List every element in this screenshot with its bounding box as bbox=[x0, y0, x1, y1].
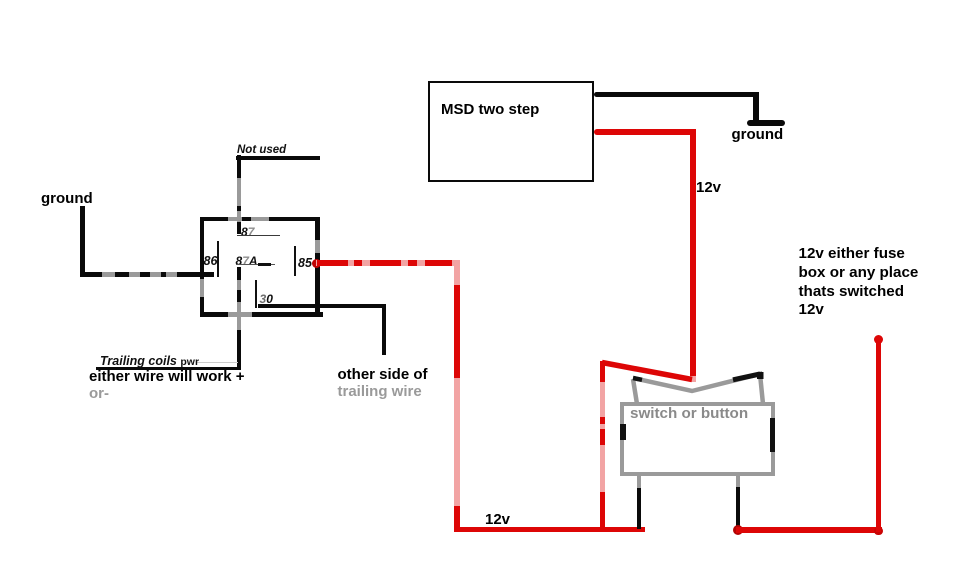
left red vertical dash a bbox=[600, 417, 606, 424]
87A vertical watermark patch 2 bbox=[237, 302, 241, 330]
switch left leg (black) bbox=[637, 488, 642, 529]
left red vertical pink 2 bbox=[600, 424, 606, 429]
relay top edge watermark patch bbox=[228, 217, 242, 221]
relay K1 box: bottom edge bbox=[200, 312, 323, 317]
12v label (near MSD) bbox=[696, 179, 721, 197]
left red vertical pink 1 bbox=[600, 382, 606, 417]
wire: switch left red vertical (segmented) bbox=[600, 361, 606, 382]
12v either fuse box label bbox=[799, 245, 919, 320]
trailing wire label bbox=[338, 383, 422, 401]
pin 86 label bbox=[204, 254, 218, 268]
wire: red vertical x457 red upper bbox=[454, 285, 460, 378]
ground horizontal watermark dash 2 bbox=[129, 272, 140, 277]
red dash 3 bbox=[370, 260, 401, 266]
pin 86 tick bbox=[217, 241, 219, 277]
node: bottom right corner dot bbox=[874, 527, 883, 535]
wire: red diagonal into switch rocker bbox=[590, 355, 700, 385]
red dash 2 bbox=[354, 260, 362, 266]
Not used label bbox=[237, 144, 286, 156]
wire: vertical drop to ground symbol bbox=[753, 92, 759, 124]
pin 87A lead line bbox=[236, 264, 275, 265]
wire: red vertical x457 pink top bbox=[454, 260, 460, 286]
wire: bottom right red horizontal bbox=[736, 527, 882, 533]
ground horizontal watermark dash 3 bbox=[150, 272, 161, 277]
node: right red vertical top dot bbox=[874, 335, 883, 344]
ground symbol (top right) bbox=[747, 120, 785, 126]
pin 87 label bbox=[241, 225, 254, 239]
switch or button label bbox=[630, 405, 748, 422]
or- label bbox=[89, 385, 109, 403]
switch right leg (gray top) bbox=[736, 476, 741, 487]
left red vertical pink 3 bbox=[600, 445, 606, 492]
Trailing coils pwr underline (thin) bbox=[196, 362, 238, 363]
pin 85 tick bbox=[294, 246, 296, 276]
switch right terminal mark bbox=[770, 418, 776, 452]
wire: not-used vertical to pin 87 bbox=[237, 155, 241, 234]
relay K1 box: left edge bbox=[200, 217, 204, 316]
wire: MSD 12v red feed, horizontal bbox=[594, 129, 695, 135]
relay K1 box: top edge bbox=[200, 217, 320, 221]
switch rocker outline bbox=[625, 365, 770, 410]
wire: bottom red horizontal bbox=[454, 527, 645, 533]
pin 30 tick bbox=[255, 280, 257, 308]
relay K1 box: right edge bbox=[315, 217, 320, 316]
node: right leg junction dot bbox=[733, 525, 743, 535]
wire: MSD 12v red feed, vertical bbox=[690, 129, 696, 376]
ground horizontal watermark dash 4 bbox=[166, 272, 177, 277]
wire: MSD output to ground (black, top) bbox=[594, 92, 759, 98]
87A vertical watermark patch 1 bbox=[237, 280, 241, 290]
red dash 4 bbox=[408, 260, 417, 266]
wire: trailing coils horizontal bbox=[96, 367, 241, 371]
relay top edge watermark patch 2 bbox=[251, 217, 269, 221]
relay right edge watermark patch bbox=[315, 240, 320, 253]
left red vertical red bottom bbox=[600, 492, 606, 532]
either wire will work + label bbox=[89, 368, 244, 386]
wire: left ground vertical bbox=[80, 206, 85, 277]
switch right leg (black) bbox=[736, 487, 741, 529]
not-used vertical watermark patch bbox=[237, 178, 241, 206]
pin 85 label bbox=[298, 256, 312, 270]
switch or button body bbox=[620, 402, 775, 476]
relay left edge watermark patch bbox=[200, 279, 204, 297]
wire: not-used horizontal bbox=[236, 156, 320, 160]
wire: pin 30 vertical end bbox=[382, 304, 386, 355]
ground horizontal watermark dash 1 bbox=[102, 272, 115, 277]
ground label (top right) bbox=[732, 126, 784, 144]
wire: pin 85 red horizontal (pink watermark base) bbox=[316, 260, 459, 266]
other side of label bbox=[338, 366, 428, 384]
MSD two step box U1 bbox=[428, 81, 594, 182]
not-used vertical watermark patch 2 bbox=[237, 211, 241, 222]
pin 30 label bbox=[260, 292, 273, 306]
wire: pin 30 horizontal bbox=[258, 304, 386, 308]
node: pin 85 red terminal dot bbox=[312, 259, 321, 268]
left red vertical dash b bbox=[600, 429, 606, 445]
wire: right red vertical to 12v source bbox=[876, 336, 882, 532]
red dash 5 bbox=[425, 260, 452, 266]
ground label (left) bbox=[41, 190, 93, 208]
MSD two step label bbox=[441, 101, 539, 119]
wire: red vertical x457 red lower bbox=[454, 506, 460, 532]
pin 87A lead line thick part bbox=[258, 263, 271, 266]
wire: red vertical x457 pink middle bbox=[454, 378, 460, 506]
wire: pin 87A vertical down to trailing coils bbox=[237, 267, 241, 370]
pin 87 underline bbox=[237, 235, 280, 237]
wire: pink watermark tip of red vertical bbox=[690, 376, 696, 382]
Trailing coils pwr label bbox=[100, 355, 199, 368]
relay bottom edge watermark patch bbox=[228, 312, 252, 317]
red dash 1 bbox=[317, 260, 348, 266]
switch left leg (gray top) bbox=[637, 476, 642, 488]
12v label (bottom) bbox=[485, 511, 510, 529]
switch left terminal mark bbox=[620, 424, 626, 440]
wire: left ground horizontal to pin 86 bbox=[80, 272, 214, 277]
pin 87A label bbox=[236, 254, 258, 268]
